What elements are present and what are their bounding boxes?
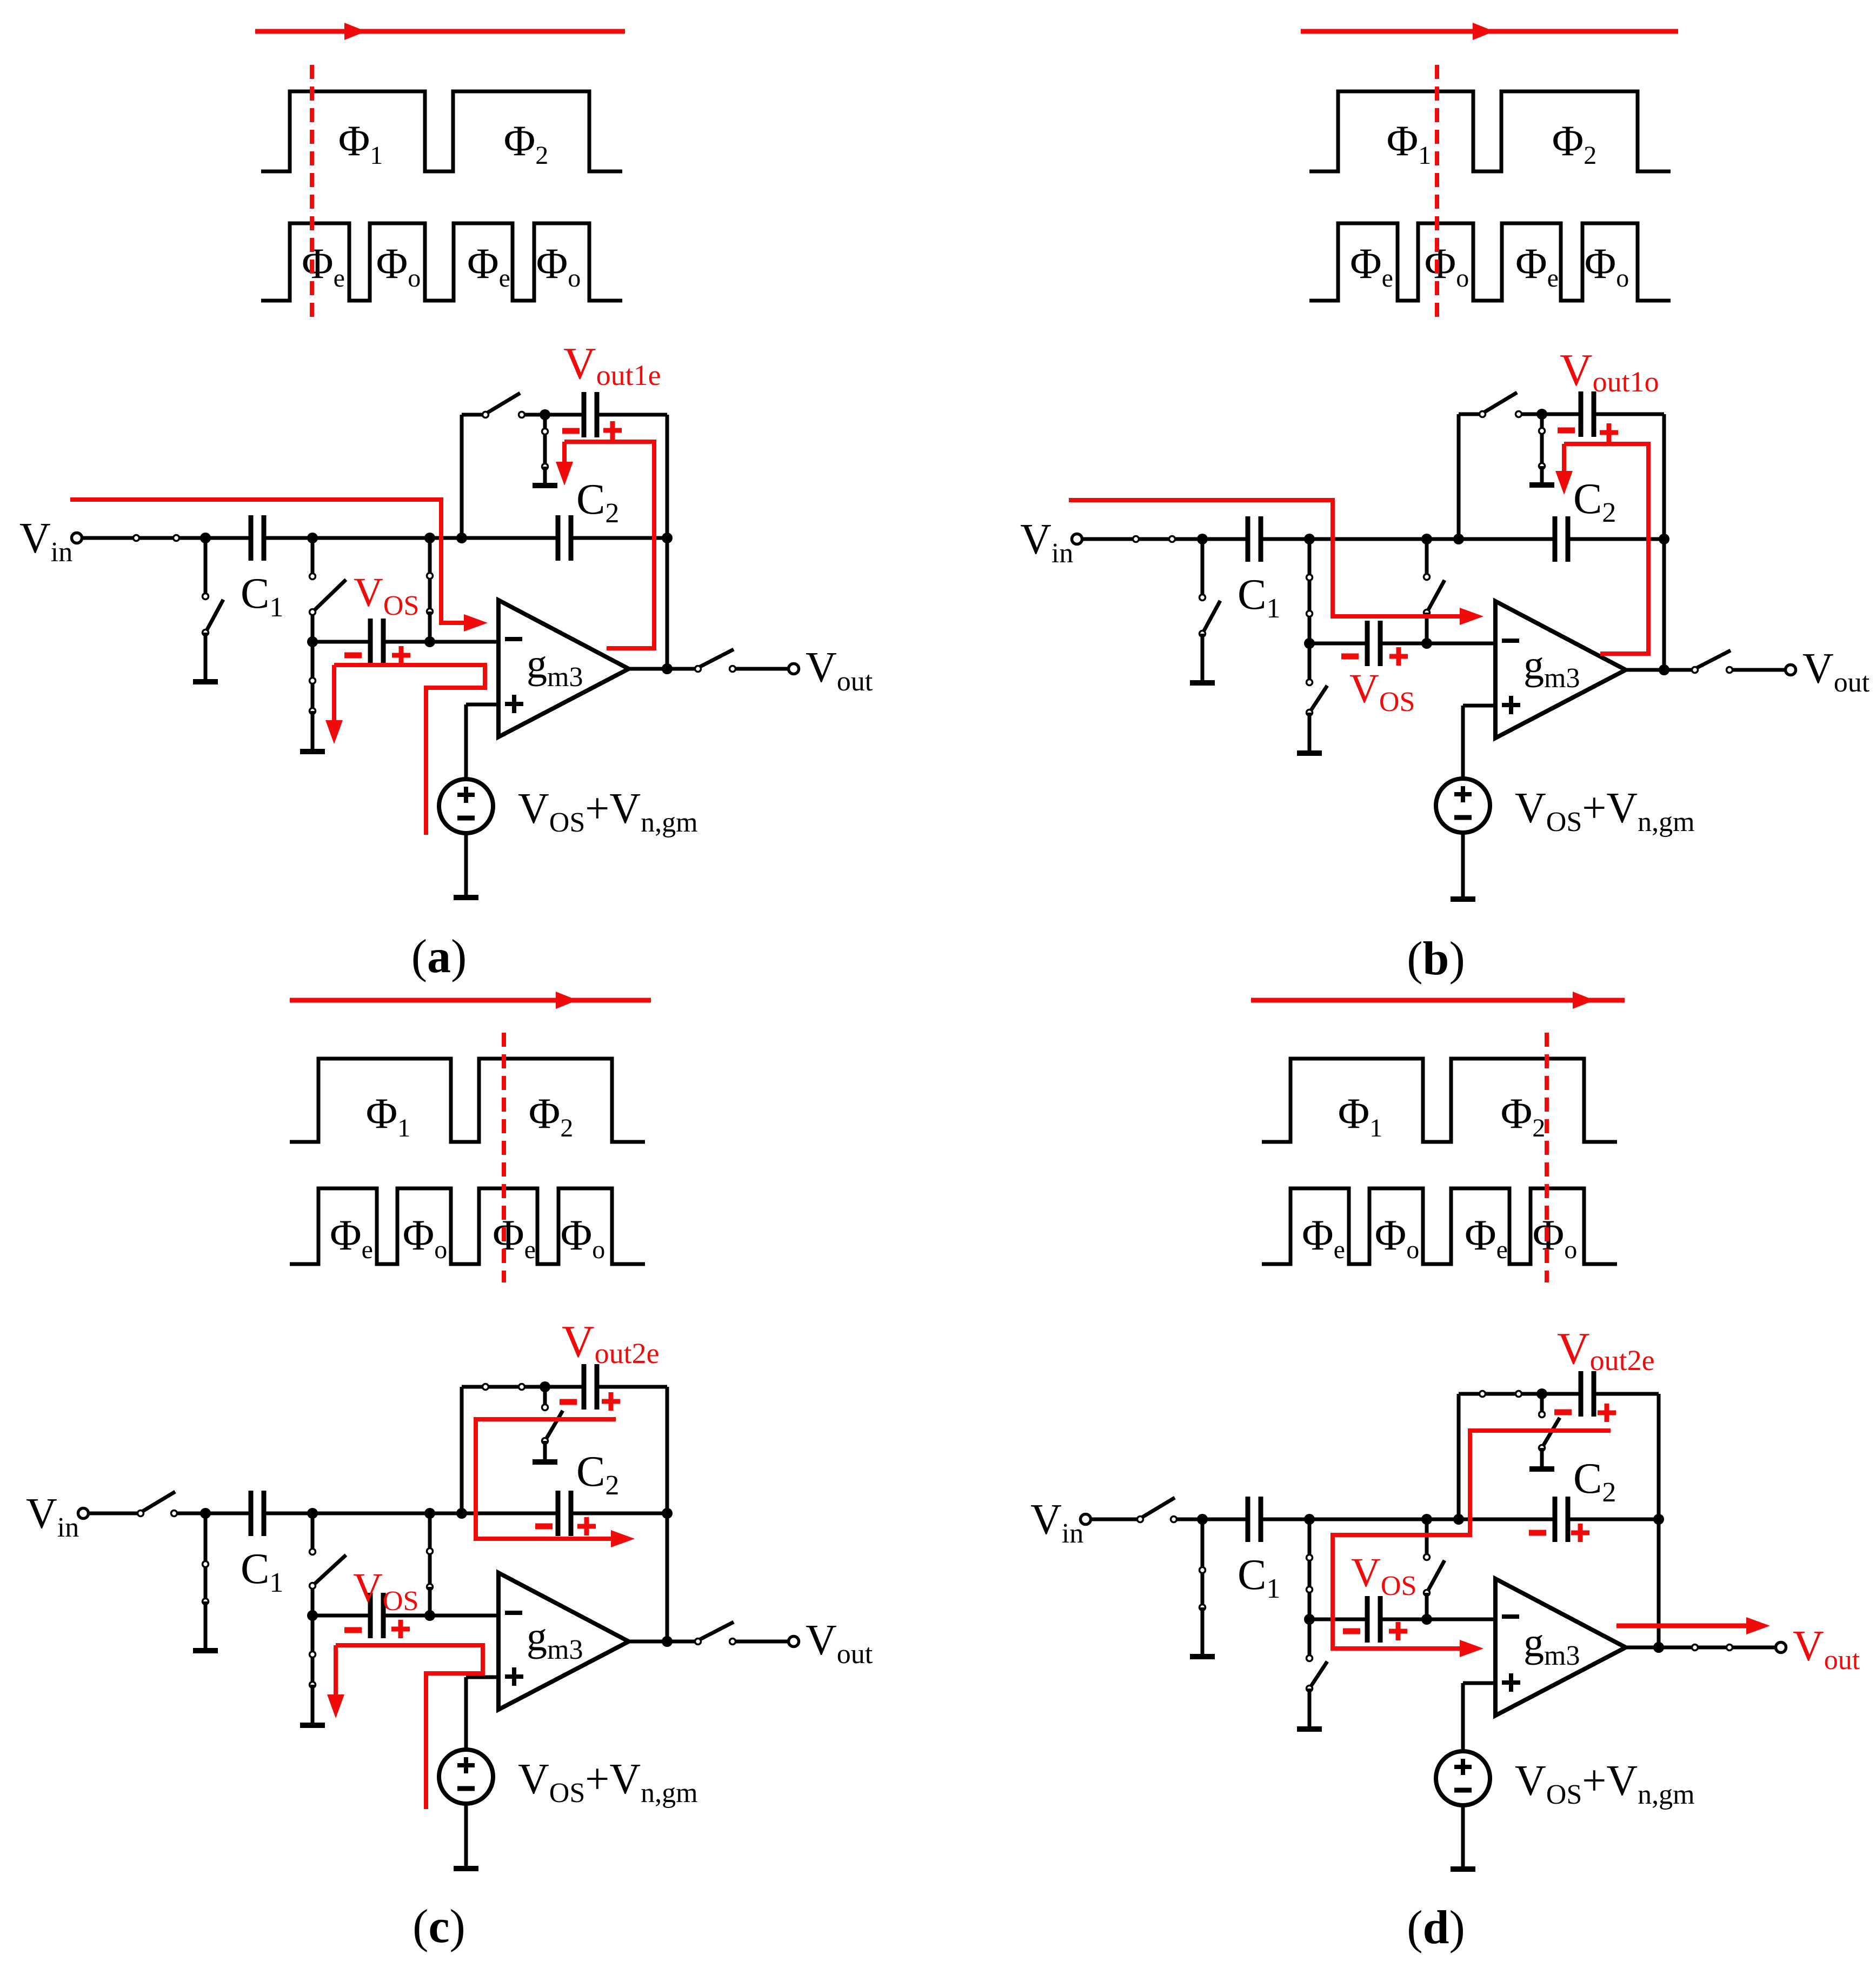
svg-text:(a): (a): [411, 930, 467, 983]
svg-text:(d): (d): [1407, 1902, 1465, 1954]
svg-text:(b): (b): [1407, 933, 1465, 985]
svg-text:(c): (c): [413, 1900, 465, 1953]
